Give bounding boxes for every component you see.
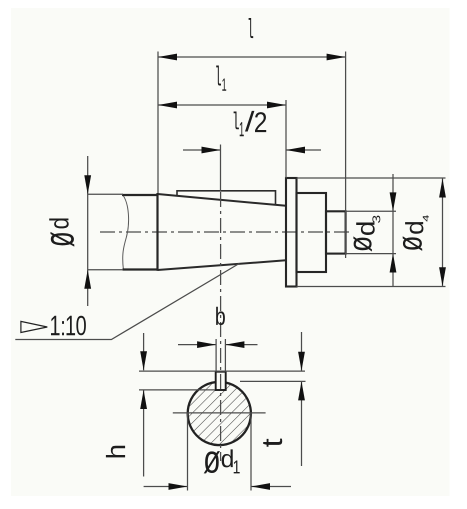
label h (rotated) bbox=[106, 446, 125, 458]
threaded end cylinder bbox=[326, 211, 346, 253]
label od3 (d) bbox=[356, 222, 375, 235]
label b bbox=[216, 307, 225, 325]
shaft cylinder phi-d bbox=[122, 194, 158, 196]
label od4 (4) bbox=[423, 215, 429, 222]
dimension phi-d bbox=[87, 156, 89, 306]
taper leader line bbox=[15, 263, 239, 339]
label l1/2 (l) bbox=[234, 112, 239, 130]
label 1:10 (1) bbox=[67, 316, 76, 336]
dimension t bbox=[301, 332, 303, 371]
label l1/2 (/) bbox=[245, 111, 254, 132]
label 1:10 (:) bbox=[62, 321, 64, 335]
ext line slot top (h/t) bbox=[139, 370, 305, 372]
dimension l1/2 bbox=[183, 149, 221, 151]
label od1 (1) bbox=[234, 461, 240, 474]
label 1:10 (1) bbox=[51, 316, 60, 336]
label od3 (o) bbox=[353, 236, 372, 251]
label 1:10 (0) bbox=[76, 316, 86, 336]
key on cone bbox=[177, 191, 276, 205]
cylinder-cone junction bbox=[156, 193, 158, 271]
ext line slot bottom (h) bbox=[139, 389, 215, 391]
dimension l bbox=[158, 56, 346, 58]
label l bbox=[249, 18, 254, 38]
section vertical centerline bbox=[220, 192, 222, 461]
shaft break line (wavy) bbox=[122, 195, 128, 270]
label t (rotated) bbox=[263, 439, 282, 447]
ext lines b bbox=[215, 339, 217, 371]
ext line circle top (t) bbox=[240, 380, 306, 382]
section circle phi-d1 (hatched) bbox=[188, 381, 251, 444]
ext lines phi-d1 bbox=[187, 413, 189, 491]
keyway slot with key (white) bbox=[216, 372, 226, 390]
washer collar bbox=[286, 178, 297, 287]
label od1 (o) bbox=[204, 451, 220, 473]
ext line right l bbox=[345, 52, 347, 259]
label l1 (l) bbox=[216, 66, 221, 86]
label l1/2 (2) bbox=[255, 112, 266, 132]
cone taper top edge bbox=[158, 194, 287, 206]
taper symbol 1:10 bbox=[21, 321, 47, 332]
label l1/2 (1) bbox=[240, 122, 244, 136]
nut block bbox=[297, 193, 327, 272]
dimension l1 bbox=[158, 104, 286, 106]
label od3 (3) bbox=[372, 216, 380, 223]
dimension phi-d4 bbox=[442, 179, 444, 287]
dimension phi-d1 bbox=[144, 486, 188, 488]
dimension phi-d3 bbox=[392, 174, 394, 286]
label od (o) bbox=[51, 232, 75, 247]
label od4 (d) bbox=[405, 222, 423, 234]
ext line l1/2 left bbox=[220, 145, 222, 192]
label od (d) bbox=[49, 219, 68, 229]
label od4 (o) bbox=[403, 236, 423, 251]
dimension h bbox=[143, 333, 145, 370]
ext line left l/l1 bbox=[157, 52, 159, 194]
section circle horizontal centerline bbox=[173, 412, 266, 414]
label od1 (d) bbox=[222, 449, 233, 467]
cone taper bottom edge bbox=[158, 260, 287, 270]
label l1 (1) bbox=[222, 79, 226, 91]
dimension b bbox=[178, 344, 216, 346]
ext line right l1 bbox=[285, 100, 287, 178]
main axis centerline bbox=[100, 231, 352, 233]
